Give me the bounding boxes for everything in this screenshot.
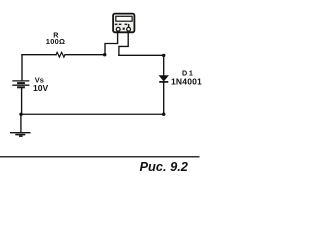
wire meter to diode junction: [119, 54, 164, 56]
node junction at diode top: [162, 54, 165, 57]
node junction bottom right: [162, 113, 165, 116]
wire diode top: [163, 55, 165, 75]
ground: [10, 133, 31, 137]
battery Vs: [12, 81, 29, 87]
wire left vertical lower (battery to bottom junction): [21, 88, 23, 114]
node junction bottom left: [19, 113, 22, 116]
wire left vertical upper (corner to battery): [21, 55, 23, 80]
ammeter U1 (multimeter body): [113, 14, 134, 33]
wire bottom junction to ground: [20, 114, 22, 132]
wire resistor to meter junction: [65, 54, 105, 56]
wire ammeter left lead: [105, 31, 118, 54]
resistor R1: [56, 52, 65, 57]
diode D1: [159, 76, 168, 82]
wire top-left horizontal: [22, 54, 56, 56]
wire diode bottom: [163, 82, 165, 114]
svg-text:Рис. 9.2: Рис. 9.2: [140, 159, 188, 174]
frame rule bottom: [0, 156, 200, 158]
svg-text:100Ω: 100Ω: [46, 37, 65, 46]
svg-text:10V: 10V: [33, 83, 48, 93]
wire bottom horizontal: [21, 113, 164, 115]
node junction at meter left lead: [103, 53, 106, 56]
svg-text:1N4001: 1N4001: [171, 76, 202, 86]
wire ammeter right lead: [119, 31, 128, 56]
